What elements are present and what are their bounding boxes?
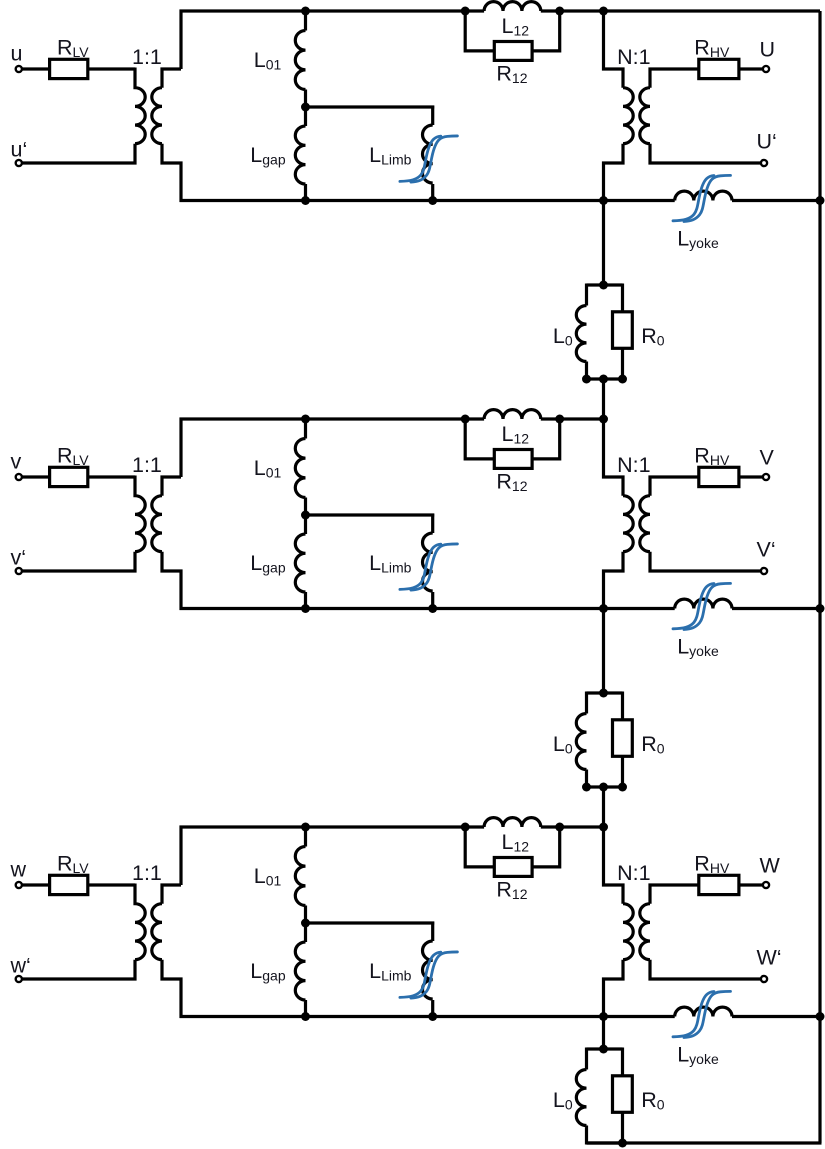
terminal V <box>763 474 769 480</box>
wire middle node to L_Limb (phase u) <box>306 105 435 108</box>
terminal v' <box>16 568 22 574</box>
node L01/L_gap junction (phase u) <box>301 103 310 112</box>
wire T2 primary bottom to bottom bus (phase v) <box>604 552 624 609</box>
resistor R_HV (phase v) <box>699 467 739 486</box>
wire T1 secondary bottom to bottom bus (phase w) <box>162 960 181 1018</box>
wire R_LV to transformer T1 (phase v) <box>88 475 135 478</box>
wire top bus right section (phase w) <box>541 825 605 828</box>
wire top bus right section (phase v) <box>541 417 605 420</box>
node L01/L_gap junction (phase w) <box>301 919 310 928</box>
wire left vertical from top bus to transformer (phase w) <box>179 826 182 886</box>
terminal W' <box>761 976 767 982</box>
resistor R_HV (phase w) <box>699 875 739 894</box>
wire L0/R0 block top (block 3) <box>587 1047 623 1050</box>
svg-text:RHV: RHV <box>694 851 730 876</box>
wire junction down to transformer T2 (phase v) <box>604 419 624 496</box>
wire T1 secondary top to top bus (phase u) <box>162 69 181 88</box>
wire top bus right section (phase u) <box>541 9 820 12</box>
node L01/L_gap junction (phase v) <box>301 511 310 520</box>
wire T2 secondary top to R_HV (phase u) <box>650 69 699 88</box>
wire R_HV to terminal W (phase w) <box>739 883 763 886</box>
wire star rail L0 block 1 to phase v bus <box>602 379 605 421</box>
saturation curve of L_Limb (phase w) <box>400 952 458 998</box>
wire star rail phase v bus to L0 block 2 <box>602 609 605 694</box>
svg-text:L12: L12 <box>502 14 530 39</box>
resistor R0 (block 1) <box>621 284 624 381</box>
node L0/R0 block top (block 1) <box>599 281 608 290</box>
node block bottom centre (block 2) <box>599 783 608 792</box>
saturation curve of L_yoke (phase u) <box>673 175 731 221</box>
transformer T2 N:1 secondary coil (phase v) <box>640 496 650 552</box>
saturation curve of L_yoke (phase v) <box>673 583 731 629</box>
node L0/R0 block top (block 2) <box>599 689 608 698</box>
resistor R0 (block 3) <box>621 1048 624 1145</box>
node L_Limb bottom (phase u) <box>428 196 437 205</box>
svg-text:R12: R12 <box>496 878 527 903</box>
node L_Limb bottom (phase w) <box>428 1012 437 1021</box>
svg-text:N:1: N:1 <box>617 861 650 885</box>
inductor L12 (phase w) <box>484 818 541 827</box>
wire R_LV to transformer T1 (phase w) <box>88 883 135 886</box>
node L12 left (phase v) <box>461 415 470 424</box>
svg-text:L01: L01 <box>254 48 282 73</box>
node L01 top (phase w) <box>301 823 310 832</box>
wire terminal w to R_LV <box>23 883 50 886</box>
inductor L_gap (phase v) <box>295 515 305 609</box>
terminal u' <box>16 160 22 166</box>
wire T2 secondary bottom to terminal U' (phase u) <box>650 144 761 163</box>
node L0/R0 block top (block 3) <box>599 1045 608 1054</box>
inductor L_gap (phase w) <box>295 923 305 1017</box>
node L12 left (phase u) <box>461 7 470 16</box>
wire bottom bus right section (phase w) <box>732 1015 822 1018</box>
svg-text:R0: R0 <box>641 1088 665 1113</box>
node R0 bottom (block 1) <box>618 375 627 384</box>
wire L0/R0 block bottom (block 2) <box>587 785 623 788</box>
svg-text:R12: R12 <box>496 470 527 495</box>
node L12 right (phase v) <box>555 415 564 424</box>
svg-text:1:1: 1:1 <box>132 45 162 69</box>
resistor R_HV (phase u) <box>699 59 739 78</box>
transformer T2 N:1 primary coil (phase u) <box>623 88 633 144</box>
wire T2 secondary top to R_HV (phase v) <box>650 477 699 496</box>
wire star rail phase w bus to L0 block 3 <box>602 1017 605 1050</box>
wire R_LV to transformer T1 (phase u) <box>88 67 135 70</box>
svg-text:N:1: N:1 <box>617 453 650 477</box>
wire star rail phase u bus to L0 block 1 <box>602 201 605 286</box>
svg-text:R0: R0 <box>641 324 665 349</box>
wire star rail L0 block 2 to phase w bus <box>602 787 605 829</box>
svg-text:u: u <box>11 42 23 66</box>
wire terminal u to R_LV <box>23 67 50 70</box>
svg-text:L0: L0 <box>553 1088 573 1113</box>
wire T1 secondary bottom to bottom bus (phase v) <box>162 552 181 610</box>
wire bottom bus left section (phase v) <box>180 607 675 610</box>
inductor L_Limb nonlinear (phase u) <box>423 106 433 201</box>
inductor L01 (phase w) <box>295 827 305 923</box>
transformer T1 1:1 primary coil (phase v) <box>135 476 145 552</box>
node L_Limb bottom (phase v) <box>428 604 437 613</box>
svg-text:U‘: U‘ <box>757 130 777 154</box>
terminal u <box>16 66 22 72</box>
saturation curve of L_Limb (phase u) <box>400 136 458 182</box>
transformer T1 1:1 primary coil (phase u) <box>135 68 145 144</box>
wire bottom bus right section (phase v) <box>732 607 822 610</box>
node block bottom centre (block 1) <box>599 375 608 384</box>
terminal W <box>763 882 769 888</box>
resistor R0 body (block 3) <box>613 1076 633 1113</box>
svg-text:u‘: u‘ <box>11 138 28 162</box>
wire middle node to L_Limb (phase w) <box>306 921 435 924</box>
wire left vertical from top bus to transformer (phase u) <box>179 10 182 70</box>
node L0 bottom (block 1) <box>582 375 591 384</box>
node L_gap bottom (phase w) <box>301 1012 310 1021</box>
wire bottom bus left section (phase w) <box>180 1015 675 1018</box>
resistor R_LV (phase w) <box>50 875 88 894</box>
transformer T1 1:1 secondary coil (phase w) <box>152 904 162 960</box>
inductor L_Limb nonlinear (phase v) <box>423 514 433 609</box>
node T2 bottom / star point (phase u) <box>599 196 608 205</box>
wire block 3 bottom to right rail <box>587 1141 822 1144</box>
svg-text:w: w <box>10 858 27 882</box>
svg-text:V: V <box>760 445 775 469</box>
transformer T1 1:1 primary coil (phase w) <box>135 884 145 960</box>
inductor L01 (phase u) <box>295 11 305 107</box>
resistor R_LV (phase u) <box>50 59 88 78</box>
svg-text:L01: L01 <box>254 456 282 481</box>
saturation curve of L_Limb (phase v) <box>400 544 458 590</box>
wire right rail <box>818 11 821 1143</box>
wire T1 secondary top to top bus (phase w) <box>162 885 181 904</box>
node top bus / N:1 junction (phase w) <box>599 823 608 832</box>
node L_gap bottom (phase u) <box>301 196 310 205</box>
transformer T2 N:1 secondary coil (phase w) <box>640 904 650 960</box>
svg-text:V‘: V‘ <box>757 538 776 562</box>
svg-text:RHV: RHV <box>694 35 730 60</box>
wire bottom bus right section (phase u) <box>732 199 822 202</box>
node L01 top (phase v) <box>301 415 310 424</box>
svg-text:RLV: RLV <box>57 443 89 468</box>
node L01 top (phase u) <box>301 7 310 16</box>
node top bus / N:1 junction (phase u) <box>599 7 608 16</box>
transformer T2 N:1 primary coil (phase v) <box>623 496 633 552</box>
svg-text:U: U <box>760 37 776 61</box>
svg-text:RLV: RLV <box>57 35 89 60</box>
inductor L0 (block 1) <box>576 284 586 381</box>
node L12 right (phase u) <box>555 7 564 16</box>
wire T2 primary bottom to bottom bus (phase w) <box>604 960 624 1017</box>
svg-text:Lgap: Lgap <box>250 551 286 576</box>
terminal v <box>16 474 22 480</box>
svg-text:v: v <box>11 450 22 474</box>
node T2 bottom / star point (phase w) <box>599 1012 608 1021</box>
wire top bus (phase u) <box>180 9 485 12</box>
wire R_HV to terminal U (phase u) <box>739 67 763 70</box>
svg-text:W‘: W‘ <box>757 946 782 970</box>
node T2 bottom / star point (phase v) <box>599 604 608 613</box>
inductor L_yoke nonlinear (phase v) <box>675 599 732 608</box>
resistor R12 (phase u) <box>494 42 532 61</box>
svg-text:N:1: N:1 <box>617 45 650 69</box>
wire L0/R0 block top (block 2) <box>587 691 623 694</box>
node L12 left (phase w) <box>461 823 470 832</box>
svg-text:L01: L01 <box>254 864 282 889</box>
node top bus / N:1 junction (phase v) <box>599 415 608 424</box>
inductor L_gap (phase u) <box>295 107 305 201</box>
node R0 bottom (block 3) <box>618 1139 627 1148</box>
resistor R12 (phase v) <box>494 450 532 469</box>
wire R_HV to terminal V (phase v) <box>739 475 763 478</box>
inductor L01 (phase v) <box>295 419 305 515</box>
terminal U <box>763 66 769 72</box>
svg-text:R12: R12 <box>496 62 527 87</box>
wire T1 primary bottom to terminal v' (phase v) <box>23 552 136 571</box>
wire junction down to transformer T2 (phase w) <box>604 827 624 904</box>
resistor R0 body (block 2) <box>613 720 633 757</box>
svg-text:W: W <box>760 853 781 877</box>
wire R12 to L12 right node (phase w) <box>532 827 560 867</box>
resistor R_LV (phase v) <box>50 467 88 486</box>
wire T1 primary bottom to terminal u' (phase u) <box>23 144 136 163</box>
svg-text:v‘: v‘ <box>11 546 27 570</box>
node L12 right (phase w) <box>555 823 564 832</box>
node L0 bottom (block 2) <box>582 783 591 792</box>
wire T1 primary bottom to terminal w' (phase w) <box>23 960 136 979</box>
wire L12 left node down to R12 (phase w) <box>465 827 494 867</box>
wire R12 to L12 right node (phase u) <box>532 11 560 51</box>
inductor L_Limb nonlinear (phase w) <box>423 922 433 1017</box>
terminal U' <box>761 160 767 166</box>
wire T2 secondary bottom to terminal W' (phase w) <box>650 960 761 979</box>
svg-text:R0: R0 <box>641 732 665 757</box>
svg-text:LLimb: LLimb <box>369 551 412 576</box>
terminal w' <box>16 976 22 982</box>
node L_gap bottom (phase v) <box>301 604 310 613</box>
node bottom bus / right rail (phase v) <box>816 604 825 613</box>
inductor L0 (block 2) <box>576 692 586 789</box>
wire T2 primary bottom to bottom bus (phase u) <box>604 144 624 201</box>
wire L0/R0 block bottom (block 3) <box>587 1141 623 1144</box>
resistor R12 (phase w) <box>494 858 532 877</box>
inductor L12 (phase v) <box>484 410 541 419</box>
transformer T1 1:1 secondary coil (phase u) <box>152 88 162 144</box>
node R0 bottom (block 2) <box>618 783 627 792</box>
wire T2 secondary top to R_HV (phase w) <box>650 885 699 904</box>
inductor L_yoke nonlinear (phase u) <box>675 191 732 200</box>
svg-text:Lyoke: Lyoke <box>677 634 719 659</box>
svg-text:RHV: RHV <box>694 443 730 468</box>
wire L12 left node down to R12 (phase u) <box>465 11 494 51</box>
svg-text:Lyoke: Lyoke <box>677 226 719 251</box>
node bottom bus / right rail (phase w) <box>816 1012 825 1021</box>
svg-text:L0: L0 <box>553 324 573 349</box>
saturation curve of L_yoke (phase w) <box>673 991 731 1037</box>
node bottom bus / right rail (phase u) <box>816 196 825 205</box>
wire L0/R0 block top (block 1) <box>587 283 623 286</box>
svg-text:w‘: w‘ <box>10 954 31 978</box>
wire bottom bus left section (phase u) <box>180 199 675 202</box>
wire left vertical from top bus to transformer (phase v) <box>179 418 182 478</box>
svg-text:1:1: 1:1 <box>132 861 162 885</box>
wire L0/R0 block bottom (block 1) <box>587 377 623 380</box>
wire junction down to transformer T2 (phase u) <box>604 11 624 88</box>
wire middle node to L_Limb (phase v) <box>306 513 435 516</box>
svg-text:L12: L12 <box>502 830 530 855</box>
wire R12 to L12 right node (phase v) <box>532 419 560 459</box>
wire T1 secondary bottom to bottom bus (phase u) <box>162 144 181 202</box>
svg-text:Lyoke: Lyoke <box>677 1042 719 1067</box>
inductor L0 (block 3) <box>576 1048 586 1145</box>
svg-text:1:1: 1:1 <box>132 453 162 477</box>
inductor L12 (phase u) <box>484 2 541 11</box>
svg-text:L12: L12 <box>502 422 530 447</box>
transformer T2 N:1 secondary coil (phase u) <box>640 88 650 144</box>
resistor R0 body (block 1) <box>613 312 633 349</box>
svg-text:RLV: RLV <box>57 851 89 876</box>
svg-text:LLimb: LLimb <box>369 143 412 168</box>
terminal w <box>16 882 22 888</box>
svg-text:LLimb: LLimb <box>369 959 412 984</box>
svg-text:Lgap: Lgap <box>250 143 286 168</box>
wire T1 secondary top to top bus (phase v) <box>162 477 181 496</box>
wire top bus (phase v) <box>180 417 485 420</box>
svg-text:Lgap: Lgap <box>250 959 286 984</box>
resistor R0 (block 2) <box>621 692 624 789</box>
wire T2 secondary bottom to terminal V' (phase v) <box>650 552 761 571</box>
transformer T2 N:1 primary coil (phase w) <box>623 904 633 960</box>
wire terminal v to R_LV <box>23 475 50 478</box>
transformer T1 1:1 secondary coil (phase v) <box>152 496 162 552</box>
wire top bus (phase w) <box>180 825 485 828</box>
terminal V' <box>761 568 767 574</box>
svg-text:L0: L0 <box>553 732 573 757</box>
wire L12 left node down to R12 (phase v) <box>465 419 494 459</box>
inductor L_yoke nonlinear (phase w) <box>675 1007 732 1016</box>
